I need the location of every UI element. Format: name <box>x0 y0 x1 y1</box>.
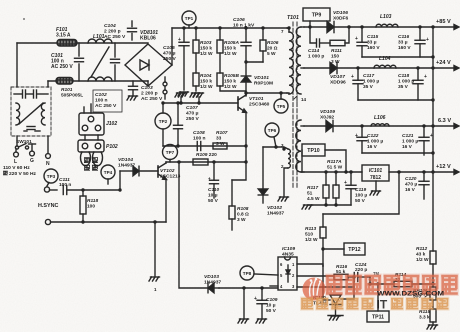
wire IC109 pin3 <box>297 286 354 288</box>
svg-text:R0P10M: R0P10M <box>254 81 273 87</box>
svg-text:150 k: 150 k <box>224 45 236 51</box>
capacitor C121 <box>402 126 433 155</box>
test point TP5 <box>274 91 288 113</box>
svg-text:160 V: 160 V <box>398 45 411 51</box>
svg-text:R109 220: R109 220 <box>196 152 217 158</box>
wire primary DC bus <box>172 26 287 29</box>
svg-text:TP5: TP5 <box>277 104 286 109</box>
test point TP4 <box>101 165 115 184</box>
wire 12V rail <box>389 170 459 175</box>
svg-text:3 W: 3 W <box>237 217 246 223</box>
watermark main text <box>325 274 459 298</box>
svg-text:4: 4 <box>280 284 283 289</box>
svg-text:100 n: 100 n <box>193 136 206 142</box>
resistor R109 <box>193 152 217 165</box>
diode VD103 <box>204 274 221 293</box>
terminal N <box>46 136 51 167</box>
resistor R107 <box>213 130 228 149</box>
svg-text:470 μ: 470 μ <box>186 111 199 117</box>
svg-text:R116: R116 <box>336 264 347 270</box>
svg-text:TP12: TP12 <box>348 247 361 253</box>
svg-text:1/2 W: 1/2 W <box>416 257 429 263</box>
svg-text:IC101: IC101 <box>369 168 383 174</box>
svg-text:C104: C104 <box>104 23 116 29</box>
svg-text:R101: R101 <box>61 87 73 93</box>
svg-text:100 n: 100 n <box>95 98 108 104</box>
svg-text:250 V: 250 V <box>186 116 200 122</box>
svg-text:6.3 V: 6.3 V <box>438 118 451 124</box>
aux winding <box>281 143 290 169</box>
label +24V <box>436 60 451 66</box>
svg-text:50 V: 50 V <box>208 198 219 204</box>
svg-text:VD107: VD107 <box>330 74 345 80</box>
svg-text:1/2 W: 1/2 W <box>224 51 237 57</box>
svg-text:150 k: 150 k <box>200 45 212 51</box>
diode VD106 <box>327 10 349 33</box>
svg-text:IC109: IC109 <box>282 246 295 252</box>
wire 85V return <box>362 55 435 58</box>
svg-text:1N4937: 1N4937 <box>267 211 284 217</box>
test point TP12 <box>323 243 365 255</box>
wire base line <box>163 102 238 104</box>
svg-text:510: 510 <box>305 231 313 237</box>
svg-text:470 μ: 470 μ <box>163 51 176 57</box>
svg-text:C115: C115 <box>367 34 378 40</box>
svg-text:5: 5 <box>280 273 283 278</box>
svg-text:VD102: VD102 <box>267 205 282 211</box>
svg-text:2SC1213: 2SC1213 <box>160 174 181 180</box>
watermark logo <box>303 271 380 301</box>
svg-text:AC 250 V: AC 250 V <box>104 34 126 40</box>
ground riser right <box>193 93 204 105</box>
capacitor C118 <box>398 68 427 100</box>
primary winding <box>281 26 293 94</box>
connector P102 <box>78 135 118 152</box>
wire sync line <box>81 188 120 191</box>
svg-text:TP1: TP1 <box>185 16 194 21</box>
svg-text:10 n 1 kV: 10 n 1 kV <box>233 23 255 29</box>
pin 14 mark <box>294 96 307 103</box>
wire 6.3V return <box>362 151 435 154</box>
wire aux top <box>263 145 288 149</box>
svg-text:IT: IT <box>377 298 388 312</box>
svg-text:+85 V: +85 V <box>436 19 451 25</box>
ground mid bottom <box>238 319 249 323</box>
wire sync riser <box>118 171 121 192</box>
wire error node <box>368 277 394 286</box>
svg-text:L: L <box>14 159 17 165</box>
svg-text:VD104: VD104 <box>118 157 133 163</box>
svg-text:1 000 μ: 1 000 μ <box>367 138 383 144</box>
label R111 <box>331 48 342 65</box>
svg-text:N: N <box>46 161 50 167</box>
ground divider <box>427 325 438 329</box>
svg-text:100: 100 <box>87 203 95 209</box>
svg-text:16 V: 16 V <box>405 187 416 193</box>
resistor R118 <box>80 190 98 224</box>
capacitor C103 to ground <box>129 81 163 102</box>
svg-text:T101: T101 <box>287 15 299 21</box>
svg-text:1/2 W: 1/2 W <box>305 237 318 243</box>
secondary winding upper <box>296 27 304 94</box>
wire 6.3V rail <box>304 124 459 129</box>
diode VD104 <box>118 157 158 176</box>
jumper pins J101 <box>163 77 167 99</box>
svg-text:1N4937: 1N4937 <box>118 163 135 169</box>
svg-text:1: 1 <box>292 262 295 267</box>
svg-text:150 k: 150 k <box>224 78 236 84</box>
svg-text:AC 250 V: AC 250 V <box>141 96 163 102</box>
ground bottom left <box>149 277 160 292</box>
wire TP11 stem <box>376 282 379 311</box>
svg-text:TP8: TP8 <box>243 271 252 276</box>
paper noise overlay <box>0 0 1 1</box>
svg-text:+: + <box>355 133 358 139</box>
svg-text:VT101: VT101 <box>249 96 264 102</box>
capacitor C119 <box>344 172 367 205</box>
capacitor C110 <box>208 162 219 204</box>
filter capacitors <box>14 90 48 98</box>
svg-text:R103: R103 <box>200 40 212 46</box>
wire emitter VT102 down <box>165 179 167 222</box>
resistor R105A <box>217 28 239 73</box>
resistor R103 <box>193 28 213 73</box>
svg-text:5 W: 5 W <box>267 51 276 57</box>
svg-text:C111: C111 <box>59 177 70 183</box>
svg-text:+: + <box>254 296 257 302</box>
label degauss coil <box>84 158 98 171</box>
resistor R114 <box>394 272 412 287</box>
svg-text:14: 14 <box>301 97 307 102</box>
svg-text:50 V: 50 V <box>266 308 277 314</box>
wire left drop to filter <box>16 43 18 87</box>
svg-text:7812: 7812 <box>370 175 381 181</box>
svg-text:220 p: 220 p <box>355 267 367 273</box>
svg-text:20 Ω: 20 Ω <box>267 45 278 51</box>
svg-text:+12 V: +12 V <box>436 164 451 170</box>
svg-text:VD109: VD109 <box>320 109 335 115</box>
capacitor C117 <box>351 68 379 100</box>
svg-text:1 000 μ: 1 000 μ <box>363 78 379 84</box>
wire emitter to drive <box>245 146 247 162</box>
capacitor C108 <box>193 130 206 151</box>
input terminal 2 <box>45 219 50 224</box>
resistor R105B <box>217 73 246 91</box>
potentiometer RP101 <box>413 287 436 300</box>
diode VD101 clamp <box>241 62 273 96</box>
transformer T101 label <box>287 15 299 21</box>
svg-text:L104: L104 <box>379 56 391 62</box>
wire collector node <box>244 91 287 95</box>
svg-text:VD106: VD106 <box>333 10 348 16</box>
ground riser left <box>175 93 186 105</box>
svg-text:VT102: VT102 <box>160 168 175 174</box>
svg-text:R112: R112 <box>416 246 427 252</box>
svg-text:TP3: TP3 <box>47 174 56 179</box>
svg-text:TP9: TP9 <box>312 13 322 19</box>
wire 24V rail <box>304 66 459 71</box>
svg-text:2 200 p: 2 200 p <box>141 91 158 97</box>
svg-text:TP2: TP2 <box>159 119 168 124</box>
svg-text:1/2 W: 1/2 W <box>224 84 237 90</box>
resistor R108 <box>229 180 249 230</box>
wire 12V return <box>308 203 351 206</box>
inductor L103 <box>376 14 398 27</box>
wire ground drop mid <box>243 288 245 318</box>
ground under C103 <box>127 96 138 100</box>
svg-text:H.SYNC: H.SYNC <box>38 203 58 209</box>
svg-text:51 5 W: 51 5 W <box>327 164 343 170</box>
svg-text:110 V 60 Hz: 110 V 60 Hz <box>3 165 30 171</box>
inductor L104 <box>374 56 396 68</box>
svg-text:4N35: 4N35 <box>282 252 294 258</box>
choke L101 <box>88 34 112 81</box>
capacitor C122 <box>355 126 383 153</box>
svg-text:10 μ: 10 μ <box>266 302 276 308</box>
svg-text:J102: J102 <box>106 121 117 127</box>
svg-text:51: 51 <box>307 190 313 196</box>
label +85V <box>436 19 451 25</box>
svg-text:470 μ: 470 μ <box>405 181 417 187</box>
svg-text:R113: R113 <box>305 226 316 232</box>
test point TP2 <box>155 101 171 129</box>
wire bridge DC+ riser <box>171 28 173 65</box>
diode VD109 <box>320 109 335 132</box>
svg-text:C102: C102 <box>95 92 107 98</box>
wire TP10 feed <box>325 150 346 172</box>
svg-text:+: + <box>178 37 181 43</box>
ground aux <box>278 197 289 201</box>
capacitor C104 line-to-line <box>104 21 137 40</box>
wire return line <box>51 220 167 223</box>
svg-text:+: + <box>351 74 354 80</box>
svg-text:100 n: 100 n <box>59 182 71 188</box>
transistor VT101 <box>238 95 270 113</box>
watermark slogan <box>300 297 450 312</box>
ground TL431 <box>328 316 343 321</box>
svg-text:10 μ: 10 μ <box>208 192 218 198</box>
svg-text:35 V: 35 V <box>398 84 409 90</box>
svg-text:TP4: TP4 <box>104 170 113 175</box>
wire VT102 collector line <box>166 160 248 163</box>
wire IC109 pin5 <box>270 285 278 287</box>
capacitor C101 line cap <box>51 43 84 81</box>
capacitor C102 across line <box>93 43 122 112</box>
label 6.3V <box>438 118 451 124</box>
svg-text:2SC3460: 2SC3460 <box>249 102 270 108</box>
wire R101 to filter box <box>47 81 49 87</box>
svg-text:16 V: 16 V <box>402 144 413 150</box>
svg-text:R105B: R105B <box>224 73 239 79</box>
svg-text:+24 V: +24 V <box>436 60 451 66</box>
wire snubber join <box>244 60 263 63</box>
svg-text:C105: C105 <box>163 45 175 51</box>
resistor R116 <box>334 264 348 280</box>
svg-text:C103: C103 <box>141 85 153 91</box>
svg-text:R107: R107 <box>216 130 228 136</box>
resistor R117 pair <box>307 172 339 205</box>
svg-text:C124: C124 <box>355 262 367 268</box>
svg-text:R106: R106 <box>267 40 279 46</box>
wire IC109 pin1 <box>297 264 323 266</box>
inductor L105 <box>371 115 389 126</box>
ground IC101 <box>370 191 381 195</box>
capacitor C120 <box>405 172 429 199</box>
svg-text:L103: L103 <box>380 14 392 20</box>
svg-text:250 V: 250 V <box>163 56 177 62</box>
wire RC drive <box>163 129 248 148</box>
ground 12V return <box>302 205 313 209</box>
svg-text:+: + <box>208 176 211 181</box>
svg-text:VD103: VD103 <box>204 274 219 280</box>
test point TP1 <box>182 11 196 28</box>
capacitor C116 <box>398 27 429 57</box>
svg-text:C117: C117 <box>363 73 374 79</box>
svg-text:1 000 p: 1 000 p <box>308 53 324 59</box>
wire sampling bus <box>432 27 434 251</box>
test point TP7 <box>163 145 178 163</box>
svg-text:100 μ: 100 μ <box>355 192 367 198</box>
svg-text:TP7: TP7 <box>166 150 175 155</box>
svg-text:+: + <box>344 180 347 186</box>
svg-text:2: 2 <box>292 273 295 278</box>
paper speck <box>23 18 25 20</box>
snubber C114 R111 loop <box>310 27 349 47</box>
svg-text:R111: R111 <box>331 48 342 54</box>
test point TP9 <box>303 8 330 27</box>
svg-text:G: G <box>30 158 34 164</box>
filter bottom capacitor <box>24 127 40 132</box>
capacitor C115 <box>355 27 380 57</box>
resistor R113 <box>305 214 326 266</box>
resistor R112 <box>416 246 436 287</box>
diode VD107 <box>330 62 346 85</box>
svg-text:0.8 Ω: 0.8 Ω <box>237 211 249 217</box>
connector J102 <box>79 104 117 135</box>
label C114 <box>308 48 324 59</box>
wire drive return <box>232 162 246 180</box>
wire long feedback drop <box>179 162 208 288</box>
wire AC line top <box>17 42 148 44</box>
svg-text:L106: L106 <box>374 115 386 121</box>
resistor R106 <box>260 28 279 62</box>
svg-text:AC 250 V: AC 250 V <box>51 64 73 70</box>
label AC input <box>3 165 36 177</box>
svg-text:150 k: 150 k <box>200 78 212 84</box>
svg-text:33 μ: 33 μ <box>367 39 377 45</box>
svg-text:P102: P102 <box>106 144 118 150</box>
svg-text:150: 150 <box>331 53 339 59</box>
svg-text:4.5 W: 4.5 W <box>307 196 320 202</box>
svg-text:R117A: R117A <box>327 159 342 165</box>
svg-text:+: + <box>424 74 427 80</box>
svg-text:KBL06: KBL06 <box>140 36 156 42</box>
svg-text:C107: C107 <box>186 105 198 111</box>
svg-text:C106: C106 <box>233 17 245 23</box>
svg-text:43 k: 43 k <box>416 251 426 257</box>
svg-text:33: 33 <box>216 135 222 141</box>
wire AC line bottom <box>48 80 148 82</box>
terminal L <box>14 149 19 165</box>
svg-text:X0DF6: X0DF6 <box>333 16 349 22</box>
filter core slash <box>19 103 43 124</box>
capacitor C124 <box>348 262 370 282</box>
input terminal H.SYNC <box>44 187 57 192</box>
svg-text:R118: R118 <box>87 198 98 204</box>
resistor R115 <box>419 300 436 325</box>
posistor R101 <box>56 78 83 99</box>
svg-text:1/2 W: 1/2 W <box>200 84 213 90</box>
svg-text:TP11: TP11 <box>372 315 384 321</box>
wire emitter drop <box>245 112 247 146</box>
shunt reg IC110 TL431 <box>313 266 356 315</box>
svg-text:3 W: 3 W <box>216 141 225 147</box>
svg-text:TP6: TP6 <box>268 128 277 133</box>
svg-text:AC 250 V: AC 250 V <box>95 103 117 109</box>
capacitor C107 <box>174 101 200 146</box>
svg-text:1/2 W: 1/2 W <box>200 51 213 57</box>
svg-text:160 V: 160 V <box>367 45 380 51</box>
wire IC101 ground <box>375 181 377 190</box>
wire feedback 12V <box>323 172 399 214</box>
svg-text:16 V: 16 V <box>367 144 378 150</box>
svg-text:TP10: TP10 <box>307 148 320 154</box>
wire aux bottom to ground <box>284 168 288 196</box>
test point TP11 <box>367 311 389 322</box>
svg-text:3: 3 <box>292 284 295 289</box>
ground under C105 <box>178 92 189 96</box>
ground C109 <box>256 319 267 323</box>
wire IC109 pin2 <box>297 276 334 277</box>
ground under R104 <box>190 93 201 97</box>
svg-text:50 V: 50 V <box>355 198 366 204</box>
svg-text:R104: R104 <box>200 73 212 79</box>
svg-text:2 200 p: 2 200 p <box>104 29 121 35</box>
svg-text:+: + <box>355 36 358 42</box>
svg-text:6: 6 <box>280 262 283 267</box>
test point TP3 <box>44 169 58 186</box>
capacitor C105 bulk <box>163 28 189 90</box>
svg-text:XDD96: XDD96 <box>330 80 346 86</box>
capacitor C109 <box>254 288 278 318</box>
svg-text:C116: C116 <box>398 34 409 40</box>
svg-text:1 000 μ: 1 000 μ <box>402 138 418 144</box>
line filter dashed box <box>11 87 51 136</box>
switch SW101 <box>15 136 32 149</box>
svg-text:220 V 50 Hz: 220 V 50 Hz <box>9 171 36 177</box>
wire bridge AC bottom <box>147 81 149 86</box>
filter coil right <box>41 103 45 125</box>
regulator IC101 <box>362 165 389 181</box>
diode VD102 <box>258 147 284 217</box>
wire ground drop <box>154 222 156 276</box>
svg-text:33 μ: 33 μ <box>398 39 408 45</box>
capacitor C111 <box>59 177 83 195</box>
svg-text:C108: C108 <box>193 130 205 136</box>
svg-text:3.3 k: 3.3 k <box>419 314 430 320</box>
degauss coil loops <box>81 152 103 166</box>
svg-text:C121: C121 <box>402 133 414 139</box>
svg-text:C118: C118 <box>398 73 409 79</box>
wire VD103 to IC109 pin4 <box>219 286 278 289</box>
resistor R117A <box>327 159 343 170</box>
svg-text:C122: C122 <box>367 133 379 139</box>
bridge rectifier VDB101 <box>125 30 172 86</box>
svg-text:C120: C120 <box>405 176 417 182</box>
optocoupler IC109 <box>278 246 297 290</box>
svg-text:3.15 A: 3.15 A <box>56 33 71 39</box>
test point TP6 <box>265 123 279 147</box>
